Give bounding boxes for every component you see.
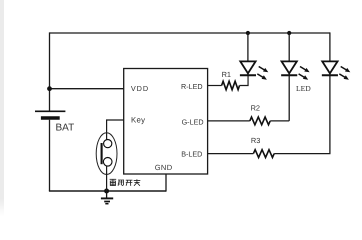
LED D3 bbox=[322, 61, 338, 75]
resistor R2 bbox=[250, 117, 270, 125]
wire: LED D2 cathode drop to R2 bbox=[288, 75, 290, 121]
wire: rail corner to LED D3 anode bbox=[329, 32, 331, 61]
node: LED D1 top junction bbox=[246, 31, 250, 35]
IC U1 body bbox=[124, 69, 208, 175]
svg-text:R2: R2 bbox=[251, 103, 260, 112]
LED D2 bbox=[281, 61, 297, 75]
wire: bottom ground rail bbox=[49, 190, 166, 192]
svg-text:B-LED: B-LED bbox=[181, 149, 202, 158]
ground symbol bbox=[101, 191, 113, 204]
wire: battery positive riser bbox=[49, 32, 51, 110]
LED D1 emission arrows bbox=[257, 67, 268, 80]
wire: Key pin to switch bbox=[107, 120, 124, 140]
switch lever bbox=[101, 143, 103, 164]
svg-text:R1: R1 bbox=[222, 70, 231, 79]
svg-text:BAT: BAT bbox=[56, 123, 75, 134]
svg-text:G-LED: G-LED bbox=[182, 117, 204, 126]
node: LED D2 top junction bbox=[287, 31, 291, 35]
wire: GND pin drop bbox=[165, 173, 167, 191]
wire: R2 to LED D2 bbox=[270, 120, 289, 122]
wire: switch to ground rail bbox=[106, 166, 108, 191]
wire: B-LED pin lead bbox=[208, 153, 254, 155]
wire: rail to LED D2 anode bbox=[288, 33, 290, 61]
switch S1 (vibration switch) body bbox=[96, 133, 117, 175]
resistor R1 bbox=[222, 81, 240, 89]
wire: LED D3 cathode drop to R3 bbox=[329, 75, 331, 153]
wire: R-LED pin lead bbox=[208, 85, 222, 87]
resistor R3 bbox=[253, 150, 274, 158]
battery BAT bbox=[35, 111, 65, 191]
svg-text:R-LED: R-LED bbox=[181, 82, 203, 91]
svg-text:LED: LED bbox=[296, 84, 311, 93]
wire: rail to LED D1 anode bbox=[247, 33, 249, 61]
svg-text:Key: Key bbox=[131, 116, 145, 125]
switch contact top bbox=[104, 140, 112, 148]
wire: R3 to LED D3 bbox=[274, 153, 330, 155]
LED D3 emission arrows bbox=[339, 67, 350, 80]
svg-text:VDD: VDD bbox=[131, 84, 149, 93]
wire: junction to VDD pin bbox=[50, 88, 124, 90]
wire: G-LED pin lead bbox=[208, 120, 250, 122]
switch contact bottom bbox=[103, 158, 112, 167]
node: ground junction bbox=[104, 189, 109, 194]
node: battery/VDD junction bbox=[47, 86, 52, 91]
svg-text:R3: R3 bbox=[251, 136, 260, 145]
wire: R1 to LED D1 cathode bbox=[240, 75, 249, 86]
svg-text:GND: GND bbox=[155, 163, 173, 172]
LED D2 emission arrows bbox=[299, 67, 310, 80]
wire: top supply rail bbox=[50, 32, 331, 34]
LED D1 bbox=[240, 61, 256, 75]
label 震动开关 (vibration switch, stylized strokes) bbox=[110, 179, 141, 186]
